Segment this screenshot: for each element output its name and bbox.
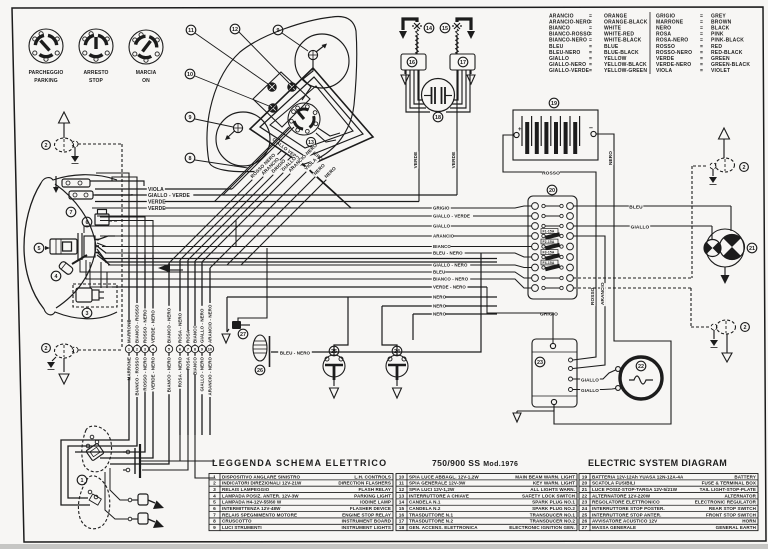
leader + label 9 top — [273, 25, 283, 35]
wire NERO band row — [227, 296, 497, 298]
label 3 — [82, 308, 92, 318]
svg-text:18: 18 — [399, 525, 405, 531]
wire BIANCO - NERO harness — [168, 263, 170, 345]
svg-text:FLASHER DEVICE: FLASHER DEVICE — [350, 506, 391, 511]
svg-text:IODINE LAMP: IODINE LAMP — [360, 500, 391, 505]
svg-text:KEY WARN. LIGHT: KEY WARN. LIGHT — [533, 481, 575, 486]
svg-text:GRIGIO: GRIGIO — [433, 206, 450, 211]
svg-text:22: 22 — [582, 493, 588, 499]
svg-text:VIOLA: VIOLA — [656, 68, 672, 74]
wire NERO band row — [413, 313, 497, 315]
svg-text:LUCE POSIZ-STOP-TARGA 12V-5/21: LUCE POSIZ-STOP-TARGA 12V-5/21W — [592, 487, 678, 492]
switch contacts lower housing — [88, 490, 92, 494]
label 5 — [34, 243, 44, 253]
svg-text:ELECTRONIC IGNITION GEN.: ELECTRONIC IGNITION GEN. — [509, 525, 575, 530]
wire ROSSO battery positive — [503, 135, 592, 172]
iodine lamp 5 — [50, 233, 99, 260]
svg-text:23: 23 — [582, 500, 588, 506]
svg-text:ALL LIGHTS WARN.: ALL LIGHTS WARN. — [530, 487, 575, 492]
dashed link to fuse row 8 — [691, 166, 693, 278]
flasher device 6 box — [95, 214, 109, 225]
svg-text:20: 20 — [549, 188, 555, 194]
wire loop around warning lights — [253, 72, 310, 127]
svg-text:6: 6 — [86, 220, 89, 226]
transducer wires to generator — [406, 70, 470, 112]
svg-text:BIANCO: BIANCO — [193, 325, 198, 343]
svg-text:NERO: NERO — [608, 151, 613, 165]
svg-text:CANDELA N.1: CANDELA N.1 — [409, 500, 441, 505]
svg-text:ARANCIO: ARANCIO — [600, 282, 605, 305]
svg-text:FRONT STOP SWITCH: FRONT STOP SWITCH — [706, 512, 756, 517]
color code legend — [549, 14, 750, 74]
svg-text:7: 7 — [187, 347, 189, 352]
svg-text:ALTERNATOR: ALTERNATOR — [724, 493, 756, 498]
wire NERO drop to rear stop switch — [382, 306, 397, 355]
svg-text:SPIA LUCE ABBAGL. 12V-1,2W: SPIA LUCE ABBAGL. 12V-1,2W — [409, 474, 479, 479]
svg-text:2: 2 — [45, 346, 48, 352]
harness wires downward to plugs — [142, 435, 180, 461]
fuse box 20 — [547, 185, 557, 195]
regulator earth — [517, 405, 554, 411]
wire GIALLO - VERDE band row — [97, 215, 532, 217]
flash relay 3 dashed box — [73, 284, 117, 307]
svg-text:ENGINE STOP RELAY: ENGINE STOP RELAY — [342, 512, 391, 517]
diag from VIOLA row — [232, 127, 294, 189]
svg-text:=: = — [700, 68, 703, 74]
svg-text:VERDE - NERO: VERDE - NERO — [151, 310, 156, 343]
label NERO on diamond — [310, 149, 324, 162]
svg-text:15: 15 — [442, 26, 448, 32]
svg-text:2: 2 — [45, 143, 48, 149]
svg-text:INTERMITTENZA 12V-48W: INTERMITTENZA 12V-48W — [222, 506, 281, 511]
wire BLEU - NERO band row — [105, 253, 532, 257]
svg-text:BIANCO - ROSSO: BIANCO - ROSSO — [135, 304, 140, 343]
svg-text:LAMPADA H4-12V-55/60 W: LAMPADA H4-12V-55/60 W — [222, 500, 282, 505]
svg-text:FUSE & TERMINAL BOX: FUSE & TERMINAL BOX — [702, 481, 756, 486]
svg-text:NERO: NERO — [433, 312, 447, 317]
alternator 22 — [620, 357, 662, 399]
diag from GIALLO-VERDE row — [223, 127, 291, 195]
svg-text:STOP: STOP — [89, 78, 103, 84]
svg-text:GIALLO - NERO: GIALLO - NERO — [200, 357, 205, 392]
wire BIANCO band row — [102, 246, 532, 248]
svg-text:22: 22 — [638, 364, 644, 370]
wire to earth 27 riser — [235, 221, 237, 247]
svg-text:10: 10 — [399, 474, 405, 480]
instrument lamp holders 7 — [62, 179, 93, 199]
stop switch 25 — [323, 346, 345, 398]
wire diamond loop middle — [260, 77, 363, 157]
connector plug with arrow B — [128, 513, 164, 528]
svg-text:F4-15A: F4-15A — [543, 261, 555, 265]
earth point 27 — [232, 321, 241, 329]
svg-text:25: 25 — [331, 349, 337, 355]
key switch 13 rosette — [281, 96, 326, 141]
svg-text:LAMPADA POSIZ. ANTER. 12V-3W: LAMPADA POSIZ. ANTER. 12V-3W — [222, 493, 299, 498]
svg-text:10: 10 — [187, 72, 193, 78]
wire BLEU band row — [108, 272, 532, 278]
svg-text:INSTRUMENT BOARD: INSTRUMENT BOARD — [342, 519, 392, 524]
svg-text:TRANSDUCER NO.1: TRANSDUCER NO.1 — [530, 512, 576, 517]
svg-text:SPARK PLUG NO.1: SPARK PLUG NO.1 — [532, 500, 575, 505]
spark plug 14 — [399, 19, 422, 54]
wire NERO battery negative — [554, 134, 671, 424]
headlight connector fan-out wires — [80, 226, 115, 287]
svg-text:BATTERIA 12V-12Ah YUASA 12N-12: BATTERIA 12V-12Ah YUASA 12N-12A-4A — [592, 474, 684, 479]
svg-text:ARRESTO: ARRESTO — [83, 70, 108, 76]
svg-text:BLEU: BLEU — [433, 270, 445, 275]
svg-text:14: 14 — [399, 500, 405, 506]
wire GIALLO band row — [100, 225, 532, 227]
svg-text:VERDE: VERDE — [451, 152, 456, 169]
svg-text:INDICATORI DIREZIONALI 12V-21W: INDICATORI DIREZIONALI 12V-21W — [222, 481, 302, 486]
svg-text:9: 9 — [189, 115, 192, 121]
wire diamond loop outer — [250, 68, 373, 167]
svg-text:ARANCIO - NERO: ARANCIO - NERO — [208, 357, 213, 396]
svg-text:2: 2 — [743, 165, 746, 171]
svg-text:9: 9 — [213, 525, 216, 531]
svg-text:VERDE - NERO: VERDE - NERO — [151, 357, 156, 390]
wires into regulator — [573, 236, 596, 360]
headlight reflector parabola — [55, 184, 96, 308]
wire VERDE - NERO band row — [112, 286, 487, 288]
svg-text:4: 4 — [213, 493, 216, 499]
svg-text:23: 23 — [537, 360, 543, 366]
svg-text:BIANCO: BIANCO — [433, 244, 451, 249]
wire ROSSO - NERO harness — [144, 255, 146, 345]
svg-text:PARKING: PARKING — [34, 78, 57, 84]
svg-text:3: 3 — [86, 311, 89, 317]
parking light 4 — [58, 261, 74, 276]
ignition key position ARRESTO — [79, 29, 113, 63]
svg-text:17: 17 — [399, 519, 405, 525]
svg-text:BIANCO - NERO: BIANCO - NERO — [167, 357, 172, 393]
svg-text:9: 9 — [277, 28, 280, 34]
svg-text:20: 20 — [582, 481, 588, 487]
svg-text:24: 24 — [394, 349, 400, 355]
wire ARANCIO - NERO harness — [209, 268, 211, 345]
svg-text:19: 19 — [582, 474, 588, 480]
speedometer circle — [216, 112, 270, 166]
wire crimp junction — [158, 264, 170, 273]
svg-text:GIALLO: GIALLO — [581, 377, 599, 382]
L.H. controls dashed housing lower — [78, 476, 109, 529]
direction flasher 2 top-left — [59, 112, 70, 123]
svg-text:VERDE: VERDE — [148, 206, 166, 212]
wire ROSA harness — [187, 260, 189, 345]
svg-text:ROSA - NERO: ROSA - NERO — [178, 357, 183, 388]
wire NERO drop to front stop switch — [334, 297, 348, 355]
svg-text:26: 26 — [582, 519, 588, 525]
wire ARANCIO band row — [100, 235, 532, 237]
svg-text:2: 2 — [744, 325, 747, 331]
svg-text:GIALLO - NERO: GIALLO - NERO — [433, 263, 468, 268]
horn 26 — [253, 335, 270, 367]
transducer 17 — [456, 36, 458, 54]
svg-text:16: 16 — [399, 512, 405, 518]
svg-text:6: 6 — [213, 506, 216, 512]
leader + label 11 — [186, 25, 196, 35]
svg-text:BIANCO - NERO: BIANCO - NERO — [433, 277, 469, 282]
wire diamond loop inner — [270, 86, 353, 148]
svg-text:PARKING LIGHT: PARKING LIGHT — [354, 493, 391, 498]
svg-text:TRANSDUCER NO.2: TRANSDUCER NO.2 — [530, 519, 576, 524]
svg-text:BATTERY: BATTERY — [734, 474, 756, 479]
svg-text:NERO: NERO — [433, 295, 447, 300]
svg-text:3: 3 — [213, 487, 216, 493]
wire BIANCO - ROSSO harness — [136, 255, 138, 345]
svg-text:VERDE: VERDE — [148, 200, 166, 206]
svg-text:10: 10 — [208, 347, 213, 352]
svg-text:ROSSO - NERO: ROSSO - NERO — [143, 357, 148, 391]
svg-text:5: 5 — [213, 500, 216, 506]
wire NERO band row — [382, 305, 497, 307]
wire VERDE top row — [95, 201, 419, 203]
svg-text:ROSA: ROSA — [186, 356, 191, 370]
svg-text:26: 26 — [257, 368, 263, 374]
svg-text:24: 24 — [582, 506, 588, 512]
svg-text:INSTRUMENT LIGHTS: INSTRUMENT LIGHTS — [342, 525, 391, 530]
dashed riser to flasher circuit — [78, 143, 122, 145]
zigzag from light 9 to key switch — [302, 60, 313, 100]
svg-text:ROSSO: ROSSO — [542, 170, 560, 176]
label 1 — [77, 475, 87, 485]
svg-text:8: 8 — [189, 156, 192, 162]
key switch outlet wires — [318, 128, 340, 136]
direction flasher 2 bottom-right — [717, 320, 736, 334]
ignition key position MARCIA — [129, 30, 163, 64]
warning light 12 — [288, 83, 297, 92]
relay wires up to rows — [100, 262, 102, 288]
leader + label 10 — [185, 69, 195, 79]
svg-text:PARCHEGGIO: PARCHEGGIO — [29, 70, 64, 76]
svg-text:NERO: NERO — [433, 304, 447, 309]
svg-text:DISPOSITIVO ANGLARE SINISTRO: DISPOSITIVO ANGLARE SINISTRO — [222, 474, 301, 479]
svg-text:GIALLO: GIALLO — [433, 224, 451, 229]
svg-text:12: 12 — [232, 27, 238, 33]
svg-text:LUCI STRUMENTI: LUCI STRUMENTI — [222, 525, 262, 530]
paper bottom gray strip — [0, 544, 768, 549]
label GRIGIO under fuse box — [539, 311, 560, 317]
svg-text:ROSA: ROSA — [186, 329, 191, 343]
svg-text:BLEU: BLEU — [629, 204, 643, 210]
svg-text:F2-15A: F2-15A — [543, 240, 555, 244]
svg-text:GENERAL EARTH: GENERAL EARTH — [716, 525, 756, 530]
svg-text:ROSSO: ROSSO — [590, 287, 595, 305]
svg-text:1: 1 — [213, 474, 216, 480]
svg-text:21: 21 — [582, 487, 588, 493]
svg-text:GIALLO - VERDE: GIALLO - VERDE — [148, 193, 191, 199]
connector plug with arrow A — [128, 494, 164, 509]
label 6 — [82, 217, 92, 227]
svg-text:–: – — [589, 125, 593, 132]
wires item7 to right — [90, 181, 144, 186]
legend divider line — [649, 12, 651, 74]
svg-text:ARANCIO - NERO: ARANCIO - NERO — [208, 304, 213, 343]
svg-text:RELAIS SPEGNIMENTO MOTORE: RELAIS SPEGNIMENTO MOTORE — [222, 512, 297, 517]
svg-text:TAIL LIGHT-STOP-PLATE: TAIL LIGHT-STOP-PLATE — [700, 487, 756, 492]
svg-text:27: 27 — [240, 332, 246, 338]
svg-text:2: 2 — [213, 481, 216, 487]
svg-text:1: 1 — [81, 478, 84, 484]
leader + label 9 bottom — [185, 112, 195, 122]
wire BLEU to tail light — [573, 205, 731, 207]
svg-text:BIANCO - NERO: BIANCO - NERO — [167, 307, 172, 343]
svg-text:TRASDUTTORE N.1: TRASDUTTORE N.1 — [409, 512, 453, 517]
svg-text:DIRECTION FLASHERS: DIRECTION FLASHERS — [338, 481, 391, 486]
svg-text:VERDE - NERO: VERDE - NERO — [433, 285, 466, 290]
svg-text:+: + — [518, 127, 522, 133]
svg-text:HORN: HORN — [742, 519, 756, 524]
svg-text:ELECTRONIC REGULATOR: ELECTRONIC REGULATOR — [695, 500, 757, 505]
svg-text:REAR STOP SWITCH: REAR STOP SWITCH — [709, 506, 756, 511]
svg-text:GIALLO - NERO: GIALLO - NERO — [200, 308, 205, 343]
tail light 21 — [706, 229, 744, 267]
wire GIALLO-VERDE top row — [95, 194, 457, 196]
svg-text:GIALLO-VERDE: GIALLO-VERDE — [549, 68, 590, 74]
svg-text:GIALLO: GIALLO — [581, 388, 599, 393]
svg-text:YELLOW-GREEN: YELLOW-GREEN — [604, 68, 647, 74]
svg-text:REGOLATORE ELETTRONICO: REGOLATORE ELETTRONICO — [592, 500, 660, 505]
svg-text:GIALLO - VERDE: GIALLO - VERDE — [433, 214, 470, 219]
svg-text:SPARK PLUG NO.2: SPARK PLUG NO.2 — [532, 506, 575, 511]
harness wires into L.H. controls — [61, 435, 169, 505]
transducer 16 — [416, 36, 418, 54]
instrument light 9 (bottom crosshair) — [225, 123, 243, 140]
svg-text:F1-15A: F1-15A — [543, 230, 555, 234]
wire BLEU-NERO drop to horn — [271, 253, 481, 352]
svg-text:GEN. ACCENS. ELETTRONICA: GEN. ACCENS. ELETTRONICA — [409, 525, 478, 530]
switch block in upper housing — [86, 443, 104, 461]
svg-text:ALTERNATORE 12V-220W: ALTERNATORE 12V-220W — [592, 493, 651, 498]
diag harness wires to cluster — [169, 150, 282, 263]
svg-text:VERDE: VERDE — [413, 152, 418, 169]
svg-text:BIANCO: BIANCO — [193, 357, 198, 375]
svg-text:8: 8 — [213, 519, 216, 525]
svg-text:L.H. CONTROLS: L.H. CONTROLS — [354, 474, 391, 479]
svg-text:4: 4 — [55, 274, 58, 280]
wire BIANCO - NERO band row — [110, 279, 532, 288]
svg-text:VIOLET: VIOLET — [711, 68, 730, 74]
arrow into lamp holder — [55, 176, 57, 190]
svg-text:11: 11 — [399, 481, 405, 487]
warning light 10 — [269, 104, 278, 113]
label GIALLO VERDE on diamond — [271, 137, 302, 163]
svg-text:SCATOLA FUSIBILI: SCATOLA FUSIBILI — [592, 481, 635, 486]
electronic regulator 23 — [532, 339, 577, 407]
warning light 11 — [268, 83, 277, 92]
ignition generator 18 — [422, 79, 455, 112]
svg-text:INTERRUTTORE STOP POSTER.: INTERRUTTORE STOP POSTER. — [592, 506, 665, 511]
tachometer circle — [295, 34, 349, 88]
svg-text:SAFETY LOCK SWITCH: SAFETY LOCK SWITCH — [522, 493, 575, 498]
label 4 — [51, 271, 61, 281]
direction flasher 2 top-right — [719, 128, 730, 139]
leader + label 12 — [230, 24, 240, 34]
harness wires 1,2 risers to lamp holders — [96, 173, 129, 255]
svg-text:MARRONE: MARRONE — [127, 357, 132, 380]
svg-text:11: 11 — [188, 28, 194, 34]
svg-text:ROSSO - NERO: ROSSO - NERO — [143, 309, 148, 343]
direction flasher 2 bottom-left — [55, 344, 74, 358]
svg-text:MARRONE: MARRONE — [127, 320, 132, 343]
instrument board 8 outline — [207, 17, 357, 172]
svg-text:AVVISATORE ACUSTICO 12V: AVVISATORE ACUSTICO 12V — [592, 519, 657, 524]
svg-text:INTERRUTTORE STOP ANTER.: INTERRUTTORE STOP ANTER. — [592, 512, 661, 517]
harness riser rows — [100, 217, 145, 255]
wire BIANCO harness — [194, 261, 196, 345]
label 7 — [66, 207, 76, 217]
condenser bars — [134, 448, 136, 474]
label 13 — [306, 137, 315, 146]
diag from VERDE row — [215, 127, 290, 202]
wire GIALLO - NERO harness — [201, 262, 203, 345]
svg-text:14: 14 — [426, 26, 432, 32]
wire VERDE - NERO harness — [152, 255, 154, 345]
battery 19 — [549, 98, 559, 108]
wire GIALLO - NERO band row — [108, 265, 532, 268]
dashed link to fuse row 9 — [573, 287, 691, 289]
wires GIALLO regulator-alternator — [573, 370, 616, 379]
legend table items 10-18 — [396, 474, 577, 532]
stop switch 24 — [386, 346, 408, 398]
second VERDE label on GRIGIO row — [147, 206, 165, 212]
svg-text:TRASDUTTORE N.2: TRASDUTTORE N.2 — [409, 519, 453, 524]
svg-text:=: = — [589, 68, 592, 74]
svg-text:5: 5 — [38, 246, 41, 252]
wires diamond to rows — [302, 163, 337, 195]
svg-text:RELAIS LAMPEGGIO: RELAIS LAMPEGGIO — [222, 487, 270, 492]
wire GRIGIO band row — [92, 206, 532, 208]
svg-text:7: 7 — [213, 512, 216, 518]
svg-text:CRUSCOTTO: CRUSCOTTO — [222, 519, 252, 524]
svg-text:ELECTRIC SYSTEM DIAGRAM: ELECTRIC SYSTEM DIAGRAM — [588, 458, 727, 468]
svg-text:13: 13 — [399, 493, 405, 499]
svg-text:19: 19 — [551, 101, 557, 107]
wire MARRONE harness — [128, 255, 130, 345]
wire VIOLA top row — [95, 188, 232, 190]
svg-text:16: 16 — [409, 60, 415, 66]
svg-text:SPIA LUCI 12V-1,2W: SPIA LUCI 12V-1,2W — [409, 487, 455, 492]
svg-text:GIALLO: GIALLO — [631, 224, 650, 230]
spark plug 15 — [452, 19, 475, 54]
svg-text:ARANCIO: ARANCIO — [433, 234, 455, 239]
svg-text:INTERRUTTORE A CHIAVE: INTERRUTTORE A CHIAVE — [409, 493, 469, 498]
svg-text:ROSA - NERO: ROSA - NERO — [178, 312, 183, 343]
svg-text:21: 21 — [749, 246, 755, 252]
svg-text:18: 18 — [435, 115, 441, 121]
svg-text:F3-15A: F3-15A — [543, 251, 555, 255]
svg-text:BLEU - NERO: BLEU - NERO — [280, 350, 311, 355]
legend table items 1-9 — [209, 474, 393, 532]
svg-text:MAIN BEAM WARN. LIGHT: MAIN BEAM WARN. LIGHT — [515, 474, 575, 479]
wire VERDE right — [456, 70, 458, 195]
svg-text:MASSA GENERALE: MASSA GENERALE — [592, 525, 636, 530]
headlight shell outer rim — [24, 183, 44, 309]
svg-text:27: 27 — [582, 525, 588, 531]
instrument light 9 (top crosshair) — [308, 44, 327, 60]
svg-text:25: 25 — [582, 512, 588, 518]
svg-text:LEGGENDA SCHEMA ELETTRICO: LEGGENDA SCHEMA ELETTRICO — [212, 458, 387, 468]
leader + label 8 — [185, 153, 195, 163]
svg-text:SPIA GENERALE 12V-3W: SPIA GENERALE 12V-3W — [409, 481, 466, 486]
wire NERO drop third — [412, 314, 414, 340]
svg-text:17: 17 — [460, 60, 466, 66]
wire VERDE left — [418, 70, 420, 202]
svg-text:MARCIA: MARCIA — [136, 70, 157, 76]
svg-text:7: 7 — [70, 210, 73, 216]
wire ROSA - NERO harness — [179, 260, 181, 345]
